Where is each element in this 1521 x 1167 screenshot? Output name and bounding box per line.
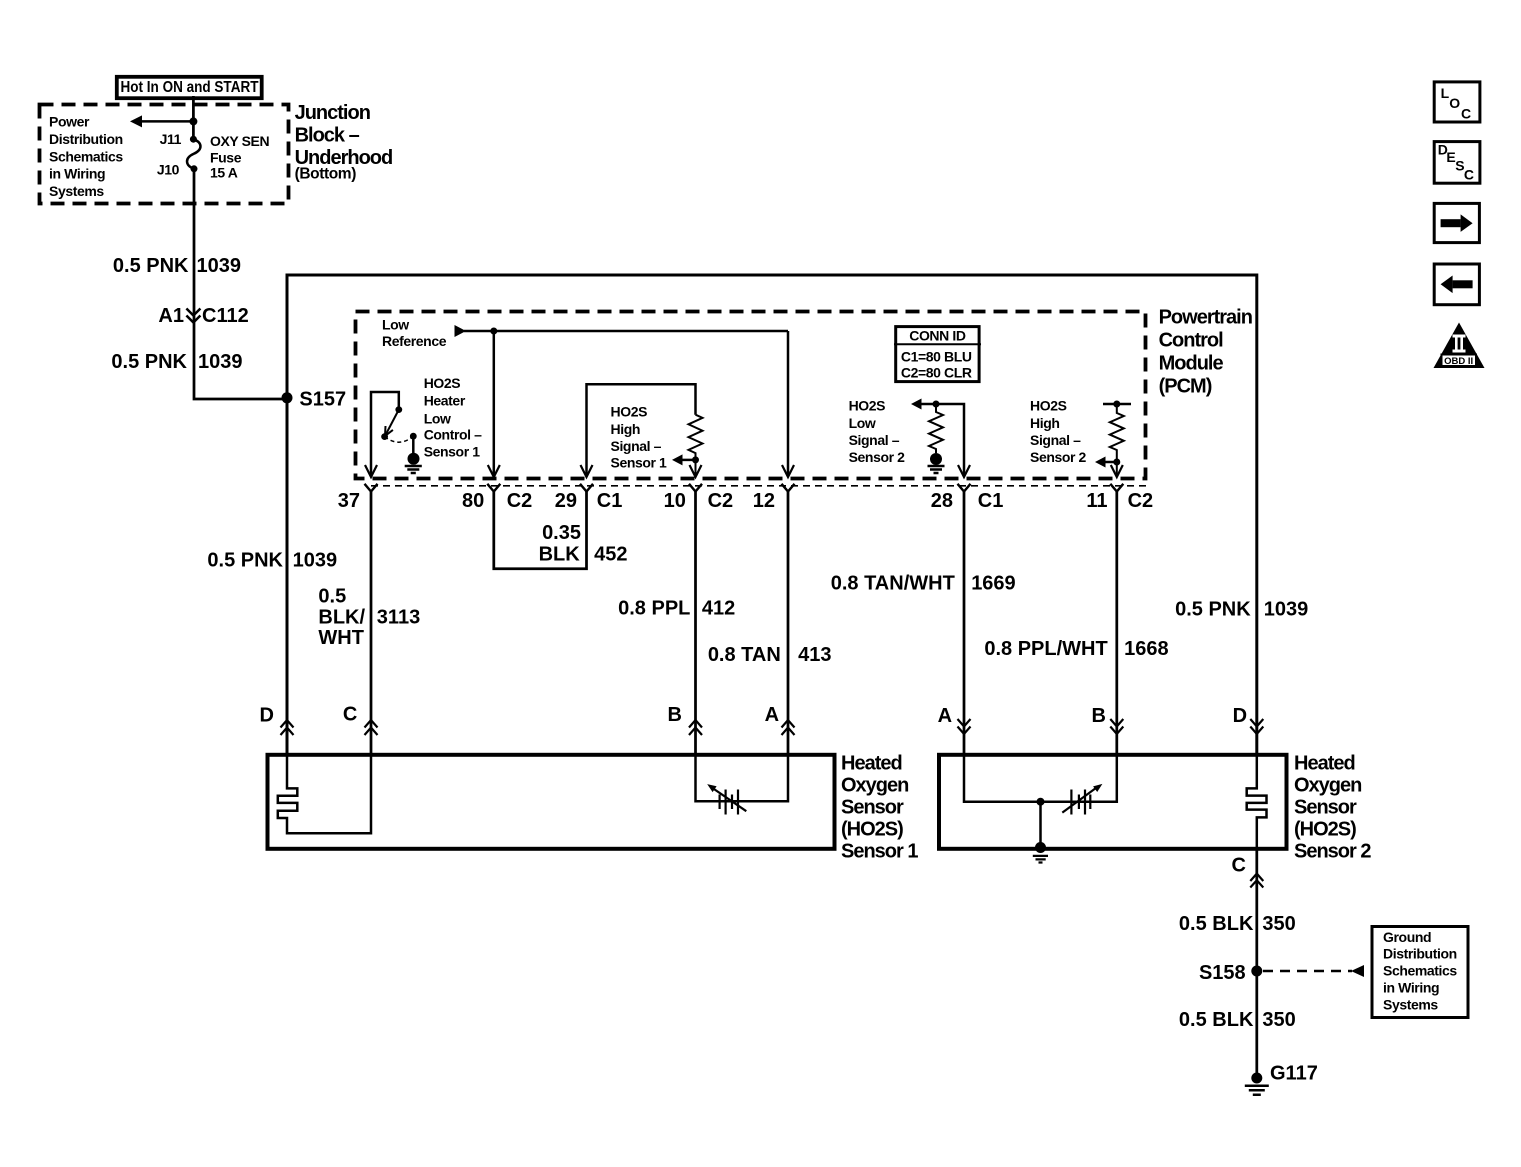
svg-text:Signal –: Signal –	[1030, 432, 1081, 448]
svg-text:(HO2S): (HO2S)	[841, 819, 903, 841]
svg-text:J11: J11	[160, 131, 182, 147]
svg-text:0.5 BLK: 0.5 BLK	[1179, 913, 1254, 935]
svg-text:(Bottom): (Bottom)	[295, 166, 357, 183]
svg-text:1669: 1669	[971, 573, 1016, 595]
svg-text:0.8 TAN/WHT: 0.8 TAN/WHT	[831, 573, 955, 595]
svg-text:Control: Control	[1159, 330, 1224, 352]
svg-text:413: 413	[798, 644, 831, 666]
svg-text:Low: Low	[382, 316, 409, 332]
svg-text:Sensor 2: Sensor 2	[1030, 449, 1087, 465]
svg-text:HO2S: HO2S	[849, 398, 886, 414]
svg-text:412: 412	[702, 598, 735, 620]
svg-text:Junction: Junction	[295, 102, 370, 124]
svg-text:Heated: Heated	[1294, 753, 1355, 775]
svg-text:0.35: 0.35	[542, 522, 581, 544]
svg-text:29: 29	[555, 490, 577, 512]
svg-text:15 A: 15 A	[210, 165, 238, 181]
svg-text:0.5: 0.5	[318, 586, 346, 608]
svg-text:C2: C2	[507, 490, 533, 512]
svg-text:Low: Low	[849, 415, 876, 431]
svg-text:Low: Low	[424, 410, 451, 426]
svg-text:S158: S158	[1199, 962, 1246, 984]
svg-text:A: A	[938, 705, 952, 727]
svg-text:Hot In ON and START: Hot In ON and START	[121, 79, 259, 96]
svg-text:HO2S: HO2S	[424, 375, 461, 391]
svg-text:Systems: Systems	[1383, 997, 1438, 1013]
svg-text:350: 350	[1262, 1009, 1295, 1031]
svg-text:0.8 TAN: 0.8 TAN	[708, 644, 781, 666]
svg-text:A1: A1	[158, 305, 184, 327]
svg-text:L: L	[1441, 85, 1450, 101]
svg-text:28: 28	[931, 490, 953, 512]
svg-text:in Wiring: in Wiring	[49, 166, 105, 182]
svg-text:Distribution: Distribution	[1383, 946, 1457, 962]
svg-text:0.5 PNK: 0.5 PNK	[111, 351, 187, 373]
svg-text:J10: J10	[157, 162, 180, 178]
svg-text:C: C	[343, 704, 357, 726]
svg-text:WHT: WHT	[318, 627, 364, 649]
svg-text:(HO2S): (HO2S)	[1294, 819, 1356, 841]
svg-text:0.8 PPL/WHT: 0.8 PPL/WHT	[984, 638, 1107, 660]
svg-text:C2: C2	[1128, 490, 1154, 512]
svg-text:Sensor 2: Sensor 2	[849, 449, 906, 465]
svg-text:Sensor: Sensor	[841, 797, 904, 819]
svg-text:0.8 PPL: 0.8 PPL	[618, 598, 690, 620]
svg-text:High: High	[1030, 415, 1060, 431]
svg-text:(PCM): (PCM)	[1159, 376, 1212, 398]
svg-text:0.5 PNK: 0.5 PNK	[1175, 599, 1251, 621]
svg-text:D: D	[1233, 705, 1247, 727]
svg-text:Schematics: Schematics	[49, 149, 123, 165]
svg-text:Schematics: Schematics	[1383, 963, 1457, 979]
svg-text:C: C	[1461, 105, 1471, 121]
svg-text:Powertrain: Powertrain	[1159, 307, 1252, 329]
svg-text:Sensor 1: Sensor 1	[424, 443, 481, 459]
svg-text:S157: S157	[299, 389, 346, 411]
svg-text:10: 10	[664, 490, 686, 512]
svg-text:Heater: Heater	[424, 392, 466, 408]
svg-text:BLK: BLK	[539, 543, 581, 565]
svg-text:1039: 1039	[1264, 599, 1309, 621]
svg-text:D: D	[260, 705, 274, 727]
svg-text:Signal –: Signal –	[849, 432, 900, 448]
svg-text:Heated: Heated	[841, 753, 902, 775]
svg-text:Sensor: Sensor	[1294, 797, 1357, 819]
svg-text:C1: C1	[597, 490, 623, 512]
svg-text:37: 37	[338, 490, 360, 512]
svg-text:Oxygen: Oxygen	[1294, 775, 1361, 797]
svg-text:C1=80 BLU: C1=80 BLU	[901, 348, 972, 364]
svg-text:0.5 PNK: 0.5 PNK	[113, 255, 189, 277]
svg-text:B: B	[1092, 705, 1106, 727]
svg-text:Ground: Ground	[1383, 929, 1431, 945]
svg-text:12: 12	[753, 490, 775, 512]
svg-text:High: High	[611, 421, 641, 437]
svg-text:1039: 1039	[198, 351, 243, 373]
svg-text:B: B	[668, 704, 682, 726]
svg-text:Fuse: Fuse	[210, 150, 242, 166]
svg-text:BLK/: BLK/	[318, 607, 365, 629]
svg-text:C112: C112	[202, 305, 249, 327]
svg-text:C2=80 CLR: C2=80 CLR	[901, 365, 972, 381]
svg-text:Oxygen: Oxygen	[841, 775, 908, 797]
svg-text:452: 452	[594, 543, 627, 565]
svg-text:3113: 3113	[377, 607, 420, 629]
svg-text:Sensor 2: Sensor 2	[1294, 841, 1371, 863]
svg-text:C: C	[1464, 166, 1474, 182]
svg-text:G117: G117	[1270, 1063, 1318, 1085]
svg-text:CONN ID: CONN ID	[909, 327, 966, 343]
svg-text:O: O	[1449, 95, 1460, 111]
svg-text:80: 80	[462, 490, 484, 512]
svg-text:HO2S: HO2S	[611, 404, 648, 420]
svg-text:OXY SEN: OXY SEN	[210, 133, 269, 149]
svg-text:1668: 1668	[1124, 638, 1169, 660]
svg-text:C2: C2	[708, 490, 734, 512]
svg-text:HO2S: HO2S	[1030, 398, 1067, 414]
svg-text:Power: Power	[49, 114, 90, 130]
svg-text:Module: Module	[1159, 353, 1224, 375]
svg-text:Control –: Control –	[424, 426, 482, 442]
svg-text:0.5 BLK: 0.5 BLK	[1179, 1009, 1254, 1031]
svg-text:C1: C1	[978, 490, 1004, 512]
svg-text:Sensor 1: Sensor 1	[841, 841, 918, 863]
svg-text:11: 11	[1086, 490, 1107, 512]
svg-text:OBD II: OBD II	[1444, 356, 1473, 367]
svg-text:Systems: Systems	[49, 183, 104, 199]
svg-text:Block –: Block –	[295, 124, 360, 146]
svg-text:0.5 PNK: 0.5 PNK	[207, 550, 283, 572]
svg-text:Distribution: Distribution	[49, 131, 123, 147]
svg-text:Sensor 1: Sensor 1	[611, 455, 668, 471]
svg-text:in Wiring: in Wiring	[1383, 980, 1439, 996]
svg-text:Signal –: Signal –	[611, 438, 662, 454]
svg-text:Reference: Reference	[382, 333, 447, 349]
svg-text:350: 350	[1262, 913, 1295, 935]
svg-text:1039: 1039	[197, 255, 242, 277]
svg-text:A: A	[765, 704, 779, 726]
svg-text:1039: 1039	[293, 550, 338, 572]
svg-text:C: C	[1232, 855, 1246, 877]
